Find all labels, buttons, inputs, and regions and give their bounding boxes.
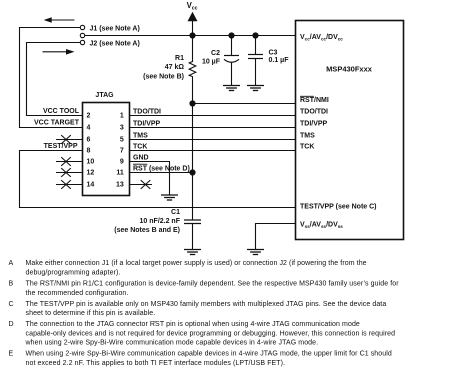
- svg-text:TDO/TDI: TDO/TDI: [133, 109, 161, 116]
- svg-text:7: 7: [120, 148, 124, 155]
- svg-text:C3: C3: [269, 49, 278, 56]
- svg-text:A: A: [9, 260, 14, 267]
- note C: [9, 301, 387, 317]
- svg-text:MSP430Fxxx: MSP430Fxxx: [326, 64, 373, 73]
- svg-text:not exceed 2.2 nF. This applie: not exceed 2.2 nF. This applies to both …: [26, 360, 286, 367]
- junction dot RST/NMI node: [189, 100, 195, 106]
- wire Vcc rail: [85, 35, 296, 37]
- pin number 10: [87, 159, 95, 166]
- pin number 8: [87, 148, 91, 155]
- label TDI/VPP (JTAG side): [133, 121, 161, 128]
- label RST (see Note D): [133, 164, 190, 173]
- label C1 value: [114, 209, 180, 234]
- svg-text:B: B: [9, 281, 14, 288]
- svg-text:R1: R1: [175, 55, 184, 62]
- label R1 value: [143, 55, 184, 80]
- svg-text:The TEST/VPP pin is available: The TEST/VPP pin is available only on MS…: [26, 301, 387, 308]
- label J1: [90, 25, 140, 32]
- svg-text:When using 2-wire Spy-Bi-Wire: When using 2-wire Spy-Bi-Wire communicat…: [26, 351, 392, 358]
- svg-text:The connection to the JTAG con: The connection to the JTAG connector RST…: [26, 321, 360, 328]
- no-connect stub pin 14: [56, 180, 83, 189]
- pin number 6: [87, 137, 91, 144]
- pin number 1: [120, 113, 124, 120]
- device MSP430 box: [296, 21, 404, 240]
- junction dot C3/Vcc rail: [252, 32, 258, 38]
- svg-text:10: 10: [87, 159, 95, 166]
- svg-text:when using 2-wire Spy-Bi-Wire: when using 2-wire Spy-Bi-Wire communicat…: [25, 340, 319, 347]
- svg-text:0.1 µF: 0.1 µF: [269, 57, 290, 64]
- capacitor C3: [248, 36, 263, 86]
- svg-text:C: C: [9, 301, 14, 308]
- ground at C1: [184, 250, 201, 255]
- pin label TMS: [300, 133, 315, 140]
- svg-text:4: 4: [87, 125, 91, 132]
- label VCC TARGET: [34, 120, 80, 127]
- pin number 13: [116, 182, 124, 189]
- svg-text:47 kΩ: 47 kΩ: [165, 64, 185, 71]
- pin number 2: [87, 113, 91, 120]
- svg-text:TMS: TMS: [300, 133, 315, 140]
- no-connect stub pin 10: [56, 157, 83, 166]
- ground at JTAG GND: [161, 195, 178, 200]
- wire Vss to ground: [256, 224, 296, 250]
- svg-text:13: 13: [116, 182, 124, 189]
- pin number 14: [87, 182, 95, 189]
- wire J2 to VCC TOOL (pin 2): [27, 43, 83, 116]
- wire J1 to VCC TARGET (pin 4): [20, 28, 83, 128]
- svg-text:J2 (see Note A): J2 (see Note A): [90, 41, 140, 48]
- wire TEST/VPP pin 8 to MSP430 TEST/VPP: [20, 151, 296, 208]
- svg-text:RST/NMI: RST/NMI: [300, 97, 329, 104]
- label TDO/TDI (JTAG side): [133, 109, 161, 116]
- label GND: [133, 155, 149, 162]
- wire TMS: [130, 139, 296, 141]
- svg-text:TDI/VPP: TDI/VPP: [133, 121, 161, 128]
- supply Vcc arrow: [188, 12, 198, 36]
- svg-text:(see Note B): (see Note B): [143, 74, 184, 81]
- ground at C3: [247, 86, 264, 91]
- no-connect stub pin 6: [56, 135, 83, 144]
- svg-text:The RST/NMI pin R1/C1 configur: The RST/NMI pin R1/C1 configuration is d…: [26, 281, 400, 288]
- pin label TCK: [300, 144, 314, 151]
- svg-text:1: 1: [120, 113, 124, 120]
- pin number 3: [120, 125, 124, 132]
- svg-text:VCC TOOL: VCC TOOL: [43, 108, 80, 115]
- wire TDI/VPP: [130, 127, 296, 129]
- svg-text:D: D: [9, 321, 14, 328]
- pin number 9: [120, 159, 124, 166]
- node J1 terminal: [80, 25, 84, 29]
- ground at Vss: [247, 250, 264, 255]
- svg-text:Vcc: Vcc: [187, 1, 198, 12]
- svg-text:TEST/VPP (see Note C): TEST/VPP (see Note C): [300, 204, 377, 211]
- svg-text:TMS: TMS: [133, 133, 148, 140]
- capacitor C1: [184, 220, 201, 250]
- label JTAG: [95, 92, 114, 99]
- svg-text:GND: GND: [133, 155, 149, 162]
- svg-text:JTAG: JTAG: [95, 92, 114, 99]
- svg-text:VCC TARGET: VCC TARGET: [34, 120, 80, 127]
- svg-text:14: 14: [87, 182, 95, 189]
- label MSP430Fxxx: [326, 64, 373, 73]
- svg-text:12: 12: [87, 170, 95, 177]
- wire TDO/TDI: [130, 115, 296, 117]
- svg-text:8: 8: [87, 148, 91, 155]
- label C2 value: [202, 50, 221, 65]
- arrow current-out (right): [43, 49, 75, 55]
- pin number 12: [87, 170, 95, 177]
- junction dot C2/Vcc rail: [228, 32, 234, 38]
- svg-text:TEST/VPP: TEST/VPP: [44, 143, 78, 150]
- no-connect stub pin 13: [130, 180, 153, 189]
- pin number 4: [87, 125, 91, 132]
- arrow current-in (left): [44, 17, 75, 23]
- svg-text:C2: C2: [211, 50, 220, 57]
- pin label Vss/AVss/DVss: [300, 222, 343, 230]
- pin label TDO/TDI: [300, 109, 328, 116]
- junction dot R1/Vcc rail: [189, 32, 195, 38]
- wire GND pin 9: [130, 162, 170, 196]
- svg-text:(see Notes B and E): (see Notes B and E): [114, 227, 180, 234]
- wire RST pin 11 to node: [130, 172, 193, 174]
- wire RST/NMI: [193, 103, 296, 105]
- label TMS (JTAG side): [133, 133, 148, 140]
- label VCC TOOL: [43, 108, 80, 115]
- svg-text:10 nF/2.2 nF: 10 nF/2.2 nF: [140, 218, 181, 225]
- svg-text:TCK: TCK: [133, 144, 147, 151]
- note E: [9, 351, 392, 367]
- svg-text:11: 11: [116, 170, 124, 177]
- svg-text:capable-only devices and is no: capable-only devices and is not required…: [26, 330, 396, 337]
- note A: [9, 260, 367, 276]
- svg-text:J1 (see Note A): J1 (see Note A): [90, 25, 140, 32]
- svg-text:TDI/VPP: TDI/VPP: [300, 121, 328, 128]
- wire TCK: [130, 150, 296, 152]
- svg-text:TDO/TDI: TDO/TDI: [300, 109, 328, 116]
- svg-text:TCK: TCK: [300, 144, 314, 151]
- pin label Vcc/AVcc/DVcc: [300, 34, 343, 42]
- no-connect stub pin 12: [56, 168, 83, 177]
- note B: [9, 281, 400, 297]
- node J2 terminal: [80, 40, 84, 44]
- label TCK (JTAG side): [133, 144, 147, 151]
- label TEST/VPP: [44, 143, 78, 150]
- supply Vcc label: [187, 1, 198, 12]
- svg-text:9: 9: [120, 159, 124, 166]
- node Vcc center terminal: [80, 33, 84, 37]
- svg-text:Make either connection J1 (if: Make either connection J1 (if a local ta…: [26, 260, 367, 267]
- note D: [9, 321, 396, 347]
- connector JTAG box: [83, 103, 130, 196]
- resistor R1: [189, 36, 196, 221]
- svg-text:E: E: [9, 351, 14, 358]
- pin number 7: [120, 148, 124, 155]
- ground at C2: [223, 86, 240, 91]
- pin label RST/NMI: [300, 96, 329, 104]
- pin label TDI/VPP: [300, 121, 328, 128]
- label J2: [90, 41, 140, 48]
- svg-text:3: 3: [120, 125, 124, 132]
- svg-text:debug/programming adapter).: debug/programming adapter).: [26, 270, 121, 277]
- svg-text:the recommended configuration.: the recommended configuration.: [26, 290, 129, 297]
- pin number 11: [116, 170, 124, 177]
- svg-text:2: 2: [87, 113, 91, 120]
- svg-text:10 µF: 10 µF: [202, 59, 221, 66]
- svg-text:RST (see Note D): RST (see Note D): [133, 166, 190, 173]
- pin number 5: [120, 137, 124, 144]
- label C3 value: [269, 49, 290, 64]
- svg-text:6: 6: [87, 137, 91, 144]
- svg-text:5: 5: [120, 137, 124, 144]
- svg-text:sheet to determine if this pin: sheet to determine if this pin is availa…: [26, 310, 156, 317]
- junction dot RST jtag node: [189, 169, 195, 175]
- svg-text:C1: C1: [171, 209, 180, 216]
- capacitor C2: [224, 36, 239, 86]
- pin label TEST/VPP (see Note C): [300, 204, 377, 211]
